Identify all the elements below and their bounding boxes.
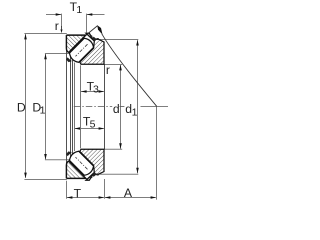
- housing washer, lower section, hatched: [80, 149, 104, 180]
- bearing axis centreline, middle dash: [120, 106, 125, 108]
- load line to load centre on axis: [102, 34, 157, 107]
- arrowhead T5 right: [99, 127, 105, 130]
- svg-text:r: r: [55, 19, 59, 33]
- dimension line d: [120, 65, 122, 149]
- extension line, T1 left reference face: [61, 14, 63, 27]
- arrowhead D bottom: [24, 173, 27, 179]
- extension line, T1 right reference face: [86, 14, 88, 33]
- arrowhead D1 top: [44, 54, 47, 60]
- cage bar, lower outer end: [92, 172, 97, 177]
- arrowhead T1 right: [87, 13, 93, 16]
- roller axis dash-dot, lower: [76, 157, 88, 169]
- arrowhead T5 left: [75, 127, 81, 130]
- arrowhead A left: [105, 196, 111, 199]
- roller axis dash-dot, upper: [76, 44, 88, 56]
- arrowhead d top: [119, 65, 122, 71]
- dimension line T5: [75, 128, 104, 130]
- svg-text:D: D: [17, 101, 26, 115]
- housing washer, upper section, hatched: [80, 33, 104, 64]
- svg-text:5: 5: [90, 119, 96, 131]
- arrowhead D top: [24, 34, 27, 40]
- bearing axis centreline, right piece to load centre: [141, 106, 169, 108]
- shaft washer, lower section, hatched: [66, 162, 85, 179]
- dimension line D1: [45, 54, 47, 159]
- extension line, T3 reference: [80, 65, 82, 148]
- svg-text:1: 1: [40, 105, 46, 117]
- extension line, shaft-washer outside diameter d1, top right: [100, 39, 139, 41]
- arrowhead T3 right: [99, 90, 105, 93]
- dimension line T1 (two halves): [46, 14, 61, 16]
- cage bar, lower inner end: [66, 151, 71, 156]
- svg-text:3: 3: [93, 83, 99, 95]
- svg-text:1: 1: [76, 4, 82, 16]
- extension line, bore d surface, top: [104, 64, 122, 66]
- svg-text:T: T: [74, 187, 82, 201]
- svg-text:d: d: [113, 102, 120, 116]
- arrowhead d1 bottom: [136, 168, 139, 174]
- dimension line D: [25, 34, 27, 178]
- arrowhead T1 left: [56, 13, 62, 16]
- arrowhead d bottom: [119, 143, 122, 149]
- arrowhead T3 left: [81, 90, 87, 93]
- arrowhead d1 top: [136, 40, 139, 46]
- dimension line T with left extension: [67, 197, 104, 199]
- bearing axis centreline, left piece: [74, 106, 112, 108]
- arrowhead D1 bottom: [44, 154, 47, 160]
- dimension line d1: [137, 40, 139, 173]
- silhouette edge, washer step x=70.5: [70, 54, 72, 160]
- extension line, load centre down to A dimension: [156, 106, 158, 199]
- shaft washer, upper section, hatched: [66, 35, 85, 52]
- cage bar, upper inner end: [66, 57, 71, 62]
- extension line, T5 reference: [74, 63, 76, 152]
- dimension line A: [104, 197, 155, 199]
- load line leader from raceway corner: [84, 26, 97, 37]
- svg-text:1: 1: [132, 106, 138, 118]
- spherical roller, upper section: [70, 38, 94, 62]
- svg-text:A: A: [124, 186, 133, 200]
- silhouette edge, washer step x=72.5: [72, 55, 74, 159]
- dimension line T3: [81, 91, 104, 93]
- extension line, housing-washer bore D1, bottom: [45, 159, 72, 161]
- silhouette edge, bearing right face x=104.5: [104, 64, 106, 149]
- spherical roller, lower section: [70, 151, 94, 175]
- arrowhead r top-left with shaft: [61, 29, 63, 33]
- extension line, housing-washer bore D1, top: [45, 53, 72, 55]
- arrowhead T left: [67, 196, 73, 199]
- extension line, shaft-washer outside diameter d1, bottom right: [100, 173, 139, 175]
- extension line, bore d surface, bottom: [104, 148, 122, 150]
- arrowhead A right: [151, 196, 157, 199]
- arrowhead T right: [99, 196, 105, 199]
- svg-text:r: r: [106, 63, 110, 77]
- extension line, bearing right face down to T/A dimension: [104, 179, 106, 199]
- load line arrowhead: [97, 25, 102, 35]
- extension line, outer-diameter D surface, top left: [24, 33, 66, 35]
- extension line, outer-diameter D surface, bottom left: [24, 179, 66, 181]
- cage bar, upper outer end: [92, 37, 97, 42]
- silhouette edge, washer back face x=66.5: [66, 48, 68, 165]
